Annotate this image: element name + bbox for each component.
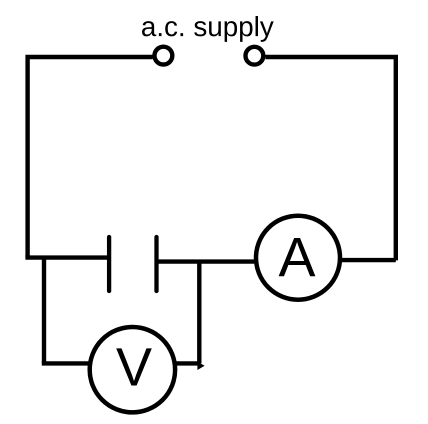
supply terminal left (open circle): [155, 47, 173, 65]
wire: left lead into capacitor left plate: [25, 255, 107, 259]
ammeter letter A: [279, 238, 316, 276]
voltmeter letter V: [116, 348, 152, 385]
supply terminal right (open circle): [246, 47, 264, 65]
capacitor C1 right plate: [154, 237, 158, 291]
arrowhead at voltmeter-branch junction: [197, 362, 204, 370]
label "a.c. supply": [142, 16, 274, 42]
wire: top-right horizontal and right vertical: [265, 57, 395, 260]
wire: capacitor right plate to ammeter: [159, 259, 255, 263]
voltmeter V (circle body): [90, 327, 175, 412]
wire: left branch down to voltmeter: [42, 256, 46, 364]
wire: into voltmeter left side: [42, 361, 89, 365]
wire: voltmeter right side to branch junction: [177, 361, 200, 365]
ammeter A (circle body): [256, 216, 340, 300]
capacitor C1 left plate: [107, 237, 111, 291]
wire: branch down from capacitor-ammeter wire to voltmeter junction: [197, 260, 201, 364]
wire: top-left horizontal and left vertical: [28, 57, 153, 258]
wire: ammeter to right vertical: [342, 258, 396, 262]
